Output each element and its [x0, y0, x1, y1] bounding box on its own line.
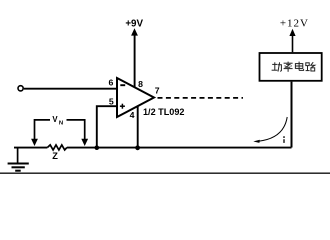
svg-text:+9V: +9V: [125, 19, 143, 30]
svg-text:6: 6: [108, 77, 113, 87]
svg-text:8: 8: [138, 79, 143, 89]
separator line at bottom: [0, 172, 330, 174]
svg-text:N: N: [59, 121, 63, 127]
glyph 率: [284, 62, 293, 72]
bottom wire right of resistor: [67, 147, 292, 149]
+12V arrowhead: [289, 29, 295, 36]
wire: box down to bottom wire: [291, 82, 293, 148]
current label i: [283, 136, 285, 143]
VN left arrowhead: [31, 139, 38, 146]
svg-text:Z: Z: [52, 151, 58, 161]
svg-text:4: 4: [130, 110, 135, 120]
ground: [8, 148, 29, 171]
wire: pin 5 to bottom node: [97, 106, 117, 147]
junction dot at pin4/bottom wire: [135, 145, 140, 150]
glyph 功: [272, 62, 282, 71]
power circuit box label (功率电路): [272, 62, 315, 72]
input terminal: [18, 86, 23, 91]
+9V arrowhead: [131, 28, 138, 35]
bottom wire left of resistor: [14, 147, 47, 149]
op-amp inverting input marker -: [120, 84, 125, 86]
svg-text:7: 7: [155, 86, 160, 96]
wire: +12V down to box: [292, 36, 294, 52]
VN measurement bracket: [35, 120, 85, 140]
VN right arrowhead: [81, 139, 88, 146]
svg-text:V: V: [52, 115, 58, 124]
current direction arc: [259, 117, 288, 141]
resistor Z: [47, 145, 67, 150]
junction dot at pin5 node: [95, 145, 100, 150]
svg-text:1/2 TL092: 1/2 TL092: [143, 107, 184, 117]
glyph 电: [295, 62, 303, 71]
svg-text:5: 5: [109, 97, 114, 107]
op-amp U1 (1/2 TL092): [117, 78, 154, 117]
current arc arrowhead: [253, 140, 259, 143]
op-amp non-inverting input marker +: [120, 104, 125, 109]
wire: input to pin 6: [24, 88, 117, 90]
wire: pin 8 up to +9V: [134, 34, 136, 88]
glyph 路: [306, 62, 315, 71]
svg-text:+12V: +12V: [280, 18, 309, 30]
power circuit box: [260, 53, 322, 81]
wire: pin 4 down to bottom wire: [137, 107, 139, 148]
wire: output pin 7 dashed: [158, 97, 244, 99]
